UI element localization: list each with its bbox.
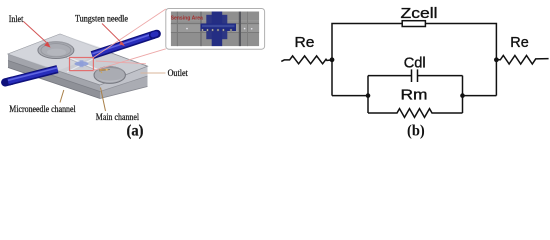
svg-text:(b): (b)	[407, 123, 425, 140]
svg-text:(a): (a)	[127, 123, 144, 140]
svg-text:Inlet: Inlet	[9, 15, 24, 25]
svg-text:Outlet: Outlet	[168, 69, 189, 79]
svg-text:Zcell: Zcell	[401, 5, 438, 22]
svg-text:Rm: Rm	[401, 87, 428, 104]
svg-text:Main channel: Main channel	[96, 113, 140, 123]
svg-text:Cdl: Cdl	[404, 55, 426, 72]
svg-text:Sensing Area: Sensing Area	[171, 16, 204, 22]
svg-text:Re: Re	[295, 34, 315, 51]
svg-text:Re: Re	[510, 34, 529, 51]
svg-text:Tungsten needle: Tungsten needle	[75, 14, 128, 24]
svg-text:Microneedle channel: Microneedle channel	[9, 105, 76, 115]
